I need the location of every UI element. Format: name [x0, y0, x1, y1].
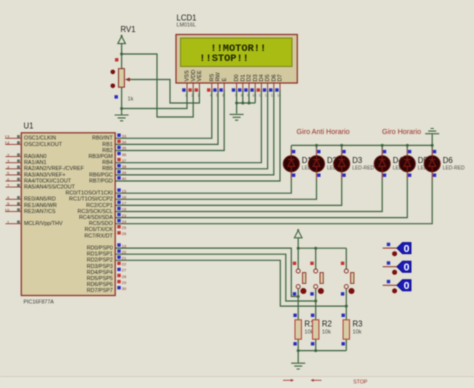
node RV1 top junction — [120, 53, 123, 56]
svg-text:!!STOP!!: !!STOP!! — [199, 53, 249, 65]
wire D0-D3 ground tie — [237, 90, 256, 114]
wire LCD D6 to PIC — [115, 90, 274, 175]
LCD text line 2 !!STOP!! — [199, 53, 249, 65]
wire LCD RW to PIC — [115, 90, 218, 144]
svg-text:24: 24 — [122, 219, 127, 224]
wire LCD D7 to PIC — [115, 90, 280, 181]
wire LCD D5 to PIC — [115, 90, 267, 169]
svg-text:38: 38 — [122, 164, 127, 169]
svg-text:RE1/AN6/WR: RE1/AN6/WR — [24, 203, 57, 209]
wire LED D2 to RC1 — [115, 172, 316, 200]
svg-text:RV1: RV1 — [121, 25, 136, 34]
node resistor rail junction R1 — [297, 349, 300, 352]
svg-text:1k: 1k — [128, 97, 134, 103]
ground above LED rail — [425, 129, 439, 134]
LED name labels D1-D6 with LED-RED — [302, 156, 465, 171]
push button 1 — [293, 262, 307, 296]
svg-text:21: 21 — [122, 256, 127, 261]
wire resistor R2 bottom — [315, 339, 317, 350]
U1 right pin squares and numbers — [117, 134, 127, 292]
ground under resistors — [291, 363, 305, 369]
wire LED D3 anode stub — [341, 145, 343, 156]
svg-text:Giro Anti Horario: Giro Anti Horario — [297, 127, 350, 136]
LCD LCD1 reference label — [177, 14, 197, 23]
svg-text:18: 18 — [122, 207, 127, 212]
value label 1k of RV1 — [128, 97, 134, 103]
svg-text:D4: D4 — [259, 74, 265, 81]
svg-text:7: 7 — [235, 94, 237, 98]
logic state probe 2 showing 0 — [383, 261, 411, 275]
svg-text:5: 5 — [216, 94, 218, 98]
svg-text:39: 39 — [122, 170, 127, 175]
svg-text:22: 22 — [122, 262, 127, 267]
value label 10k of R1 — [304, 330, 313, 336]
wire button 2 bottom to resistor — [315, 289, 317, 320]
wire LED D1 to RC0 — [115, 172, 291, 194]
svg-text:D6: D6 — [271, 74, 277, 81]
node LED rail junction — [340, 144, 343, 147]
svg-text:LM016L: LM016L — [177, 22, 196, 28]
svg-text:R2: R2 — [322, 320, 332, 329]
LED D2 — [309, 149, 325, 179]
svg-text:2: 2 — [191, 94, 193, 98]
node LED rail junction — [431, 144, 434, 147]
svg-text:10k: 10k — [322, 330, 331, 336]
svg-text:VEE: VEE — [197, 70, 203, 81]
svg-text:RB5: RB5 — [102, 166, 113, 172]
wire LED D3 to RC2 — [115, 172, 342, 206]
svg-text:RE0/AN5/RD: RE0/AN5/RD — [24, 197, 56, 203]
wire button 1 top — [297, 248, 299, 269]
label right arrow — [283, 379, 294, 382]
svg-text:RD5/PSP5: RD5/PSP5 — [87, 276, 113, 282]
wire rail to bottom ground — [297, 351, 299, 363]
node RV1 bottom junction — [120, 107, 123, 110]
value label 10k of R3 — [353, 330, 362, 336]
svg-text:RA0/AN0: RA0/AN0 — [24, 154, 46, 160]
svg-text:E: E — [222, 78, 228, 82]
wire LED D4 anode stub — [381, 145, 383, 156]
svg-text:RB2: RB2 — [102, 148, 113, 154]
svg-text:RA2/AN2/VREF-/CVREF: RA2/AN2/VREF-/CVREF — [24, 166, 85, 172]
svg-text:23: 23 — [122, 213, 127, 218]
node button 2 bottom junction — [314, 300, 317, 303]
svg-text:16: 16 — [122, 195, 127, 200]
wire LED D5 anode stub — [406, 145, 408, 156]
potentiometer RV1 — [111, 58, 130, 99]
ground under RV1 — [115, 112, 129, 121]
wire LCD D4 to PIC — [115, 90, 261, 163]
node LED rail junction — [381, 144, 384, 147]
wire RD0 to button 1 — [115, 248, 298, 296]
microcontroller U1 PIC16F877A body — [21, 133, 115, 296]
U1 right pin labels — [65, 136, 113, 295]
svg-text:14: 14 — [5, 141, 10, 146]
svg-text:0: 0 — [404, 262, 410, 274]
LCD text line 1 !!MOTOR!! — [210, 43, 266, 55]
svg-text:LED-RED: LED-RED — [352, 165, 374, 171]
U1 left pin labels — [24, 136, 85, 227]
svg-text:30: 30 — [122, 286, 127, 291]
svg-text:RD2/PSP2: RD2/PSP2 — [87, 258, 113, 264]
label R1 — [304, 320, 314, 329]
LED D4 — [374, 149, 390, 179]
svg-text:36: 36 — [122, 152, 127, 157]
svg-text:40: 40 — [122, 176, 127, 181]
label R2 — [322, 320, 332, 329]
wire LED top rail — [291, 144, 432, 146]
svg-text:28: 28 — [122, 274, 127, 279]
label Giro Horario — [382, 127, 421, 136]
node resistor rail junction R2 — [314, 349, 317, 352]
wire RD1 to button 2 — [115, 254, 316, 301]
svg-text:RC4/SDI/SDA: RC4/SDI/SDA — [79, 215, 113, 221]
node LED rail junction — [406, 144, 409, 147]
wire button 2 top — [315, 248, 317, 269]
svg-text:RC3/SCK/SCL: RC3/SCK/SCL — [77, 209, 112, 215]
svg-text:PIC16F877A: PIC16F877A — [24, 299, 55, 305]
svg-text:Giro Horario: Giro Horario — [382, 127, 421, 136]
svg-text:13: 13 — [271, 94, 275, 98]
U1 left pins with numbers — [5, 135, 22, 225]
LCD pin names VSS VDD VEE RS RW E D0-D7 — [185, 70, 284, 82]
svg-text:6: 6 — [222, 94, 224, 98]
LED D3 — [334, 149, 350, 179]
svg-text:35: 35 — [122, 146, 127, 151]
svg-text:OSC2/CLKOUT: OSC2/CLKOUT — [24, 142, 63, 148]
node D2 tie junction — [248, 102, 251, 105]
svg-text:26: 26 — [122, 231, 127, 236]
svg-text:29: 29 — [122, 280, 127, 285]
svg-text:RW: RW — [216, 72, 222, 82]
svg-text:D6: D6 — [443, 156, 453, 165]
svg-text:VSS: VSS — [185, 70, 191, 81]
label STOP — [353, 379, 368, 385]
power terminal above RV1 — [118, 35, 126, 44]
svg-text:25: 25 — [122, 225, 127, 230]
wire button 3 top — [345, 248, 347, 269]
svg-text:RA3/AN3/VREF+: RA3/AN3/VREF+ — [24, 172, 66, 178]
wire resistor bottom rail — [298, 350, 346, 352]
wire LCD RS to PIC — [115, 90, 212, 138]
wire VDD net RV1 top to LCD VDD — [122, 54, 194, 117]
svg-text:RA5/AN4/SS/C2OUT: RA5/AN4/SS/C2OUT — [24, 185, 76, 191]
svg-text:RD1/PSP1: RD1/PSP1 — [87, 252, 113, 258]
node button rail junction 2 — [314, 247, 317, 250]
LED D6 — [424, 149, 440, 179]
IC U1 reference label — [24, 122, 34, 131]
svg-text:D5: D5 — [265, 74, 271, 81]
node button 1 bottom junction — [297, 295, 300, 298]
svg-text:RC1/T1OSI/CCP2: RC1/T1OSI/CCP2 — [69, 197, 113, 203]
svg-text:20: 20 — [122, 249, 127, 254]
svg-text:12: 12 — [265, 94, 269, 98]
svg-text:0: 0 — [404, 243, 410, 255]
svg-text:RD4/PSP4: RD4/PSP4 — [87, 270, 113, 276]
svg-text:LCD1: LCD1 — [177, 14, 197, 23]
svg-text:D3: D3 — [352, 156, 362, 165]
wire LED D2 anode stub — [316, 145, 318, 156]
svg-text:RB0/INT: RB0/INT — [92, 136, 113, 142]
node D0 tie junction — [235, 102, 238, 105]
resistor R2 — [311, 314, 319, 346]
LED D5 — [399, 149, 415, 179]
LCD pins 1-14 — [182, 83, 281, 98]
wire button 1 bottom to resistor — [297, 289, 299, 320]
svg-text:RB6/PGC: RB6/PGC — [89, 172, 113, 178]
svg-text:19: 19 — [122, 243, 127, 248]
svg-text:33: 33 — [122, 134, 127, 139]
svg-text:RB1: RB1 — [102, 142, 113, 148]
LCD LCD1 body and screen — [176, 35, 297, 84]
svg-text:D0: D0 — [234, 74, 240, 81]
svg-text:9: 9 — [247, 94, 249, 98]
svg-text:RD3/PSP3: RD3/PSP3 — [87, 264, 113, 270]
svg-text:LED-RED: LED-RED — [443, 165, 465, 171]
ground under LCD data pins — [230, 114, 244, 120]
label left arrow — [311, 379, 322, 382]
push button 2 — [310, 262, 324, 296]
svg-text:10: 10 — [252, 94, 256, 98]
svg-text:8: 8 — [241, 94, 243, 98]
wire power stem to button rail — [297, 238, 299, 248]
svg-text:OSC1/CLKIN: OSC1/CLKIN — [24, 136, 56, 142]
svg-text:D1: D1 — [240, 74, 246, 81]
svg-text:RA1/AN1: RA1/AN1 — [24, 160, 46, 166]
svg-text:1: 1 — [185, 94, 187, 98]
svg-text:0: 0 — [404, 280, 410, 292]
wire LED D5 to RC4 — [115, 172, 407, 218]
label R3 — [353, 320, 363, 329]
LCD LM016L type label — [177, 22, 196, 28]
svg-text:RS: RS — [209, 73, 215, 81]
svg-text:RB4: RB4 — [102, 160, 113, 166]
svg-text:U1: U1 — [24, 122, 34, 131]
node LED rail junction — [315, 144, 318, 147]
svg-text:RC7/RX/DT: RC7/RX/DT — [84, 233, 113, 239]
resistor R1 — [293, 314, 301, 346]
wire LED D4 to RC3 — [115, 172, 382, 212]
U1 part number label — [24, 299, 55, 305]
svg-text:17: 17 — [122, 201, 127, 206]
svg-text:RB7/PGD: RB7/PGD — [89, 178, 113, 184]
svg-text:MCLR/Vpp/THV: MCLR/Vpp/THV — [24, 221, 63, 227]
svg-text:4: 4 — [210, 94, 212, 98]
potentiometer RV1 label — [121, 25, 136, 34]
LED D1 — [283, 149, 299, 179]
svg-text:RC2/CCP1: RC2/CCP1 — [86, 203, 113, 209]
svg-text:VDD: VDD — [191, 70, 197, 82]
resistor R3 — [342, 314, 350, 346]
svg-text:34: 34 — [122, 140, 127, 145]
svg-text:D3: D3 — [253, 74, 259, 81]
svg-text:RD0/PSP0: RD0/PSP0 — [87, 246, 113, 252]
wire RD2 to button 3 — [115, 260, 346, 306]
logic state probe 1 showing 0 — [383, 243, 411, 257]
wire LED D6 anode stub — [431, 145, 433, 156]
svg-text:13: 13 — [5, 135, 10, 140]
wire VEE net RV1 wiper to LCD VEE — [129, 80, 199, 104]
svg-text:RD6/PSP6: RD6/PSP6 — [87, 282, 113, 288]
svg-text:14: 14 — [277, 94, 281, 98]
svg-text:37: 37 — [122, 158, 127, 163]
wire RV1 bottom to ground — [121, 87, 123, 112]
wire VSS net RV1 bottom to LCD VSS — [122, 90, 187, 109]
wire LCD E to PIC — [115, 90, 224, 151]
svg-text:D2: D2 — [247, 74, 253, 81]
wire LED D1 anode stub — [290, 145, 292, 156]
value label 10k of R2 — [322, 330, 331, 336]
svg-text:RD7/PSP7: RD7/PSP7 — [87, 288, 113, 294]
wire button 3 bottom to resistor — [345, 289, 347, 320]
wire rail to upper ground — [431, 134, 433, 145]
svg-text:RC0/T1OSO/T1CKI: RC0/T1OSO/T1CKI — [65, 191, 112, 197]
node button rail junction 1 — [297, 247, 300, 250]
svg-text:RE2/AN7/CS: RE2/AN7/CS — [24, 209, 56, 215]
wire resistor R3 bottom — [345, 339, 347, 350]
logic state probe 3 showing 0 — [383, 280, 411, 294]
svg-text:10: 10 — [5, 208, 10, 213]
svg-text:15: 15 — [122, 188, 127, 193]
node D1 tie junction — [241, 102, 244, 105]
svg-text:RB3/PGM: RB3/PGM — [89, 154, 114, 160]
power terminal above buttons — [294, 229, 302, 238]
svg-text:27: 27 — [122, 268, 127, 273]
label Giro Anti Horario — [297, 127, 350, 136]
wire button top rail — [298, 247, 346, 249]
svg-text:10k: 10k — [353, 330, 362, 336]
svg-text:3: 3 — [197, 94, 199, 98]
push button 3 — [341, 262, 355, 296]
svg-text:RA4/T0CKI/C1OUT: RA4/T0CKI/C1OUT — [24, 178, 72, 184]
svg-text:11: 11 — [259, 94, 263, 98]
svg-text:RC6/TX/CK: RC6/TX/CK — [85, 227, 114, 233]
node button 3 bottom junction — [345, 305, 348, 308]
wire RV1 power stem — [121, 44, 123, 69]
wire resistor R1 bottom — [297, 339, 299, 350]
svg-text:RC5/SDO: RC5/SDO — [89, 221, 113, 227]
svg-text:STOP: STOP — [353, 379, 368, 385]
svg-text:R3: R3 — [353, 320, 363, 329]
svg-text:D7: D7 — [278, 74, 284, 81]
wire LED D6 to RC5 — [115, 172, 432, 224]
